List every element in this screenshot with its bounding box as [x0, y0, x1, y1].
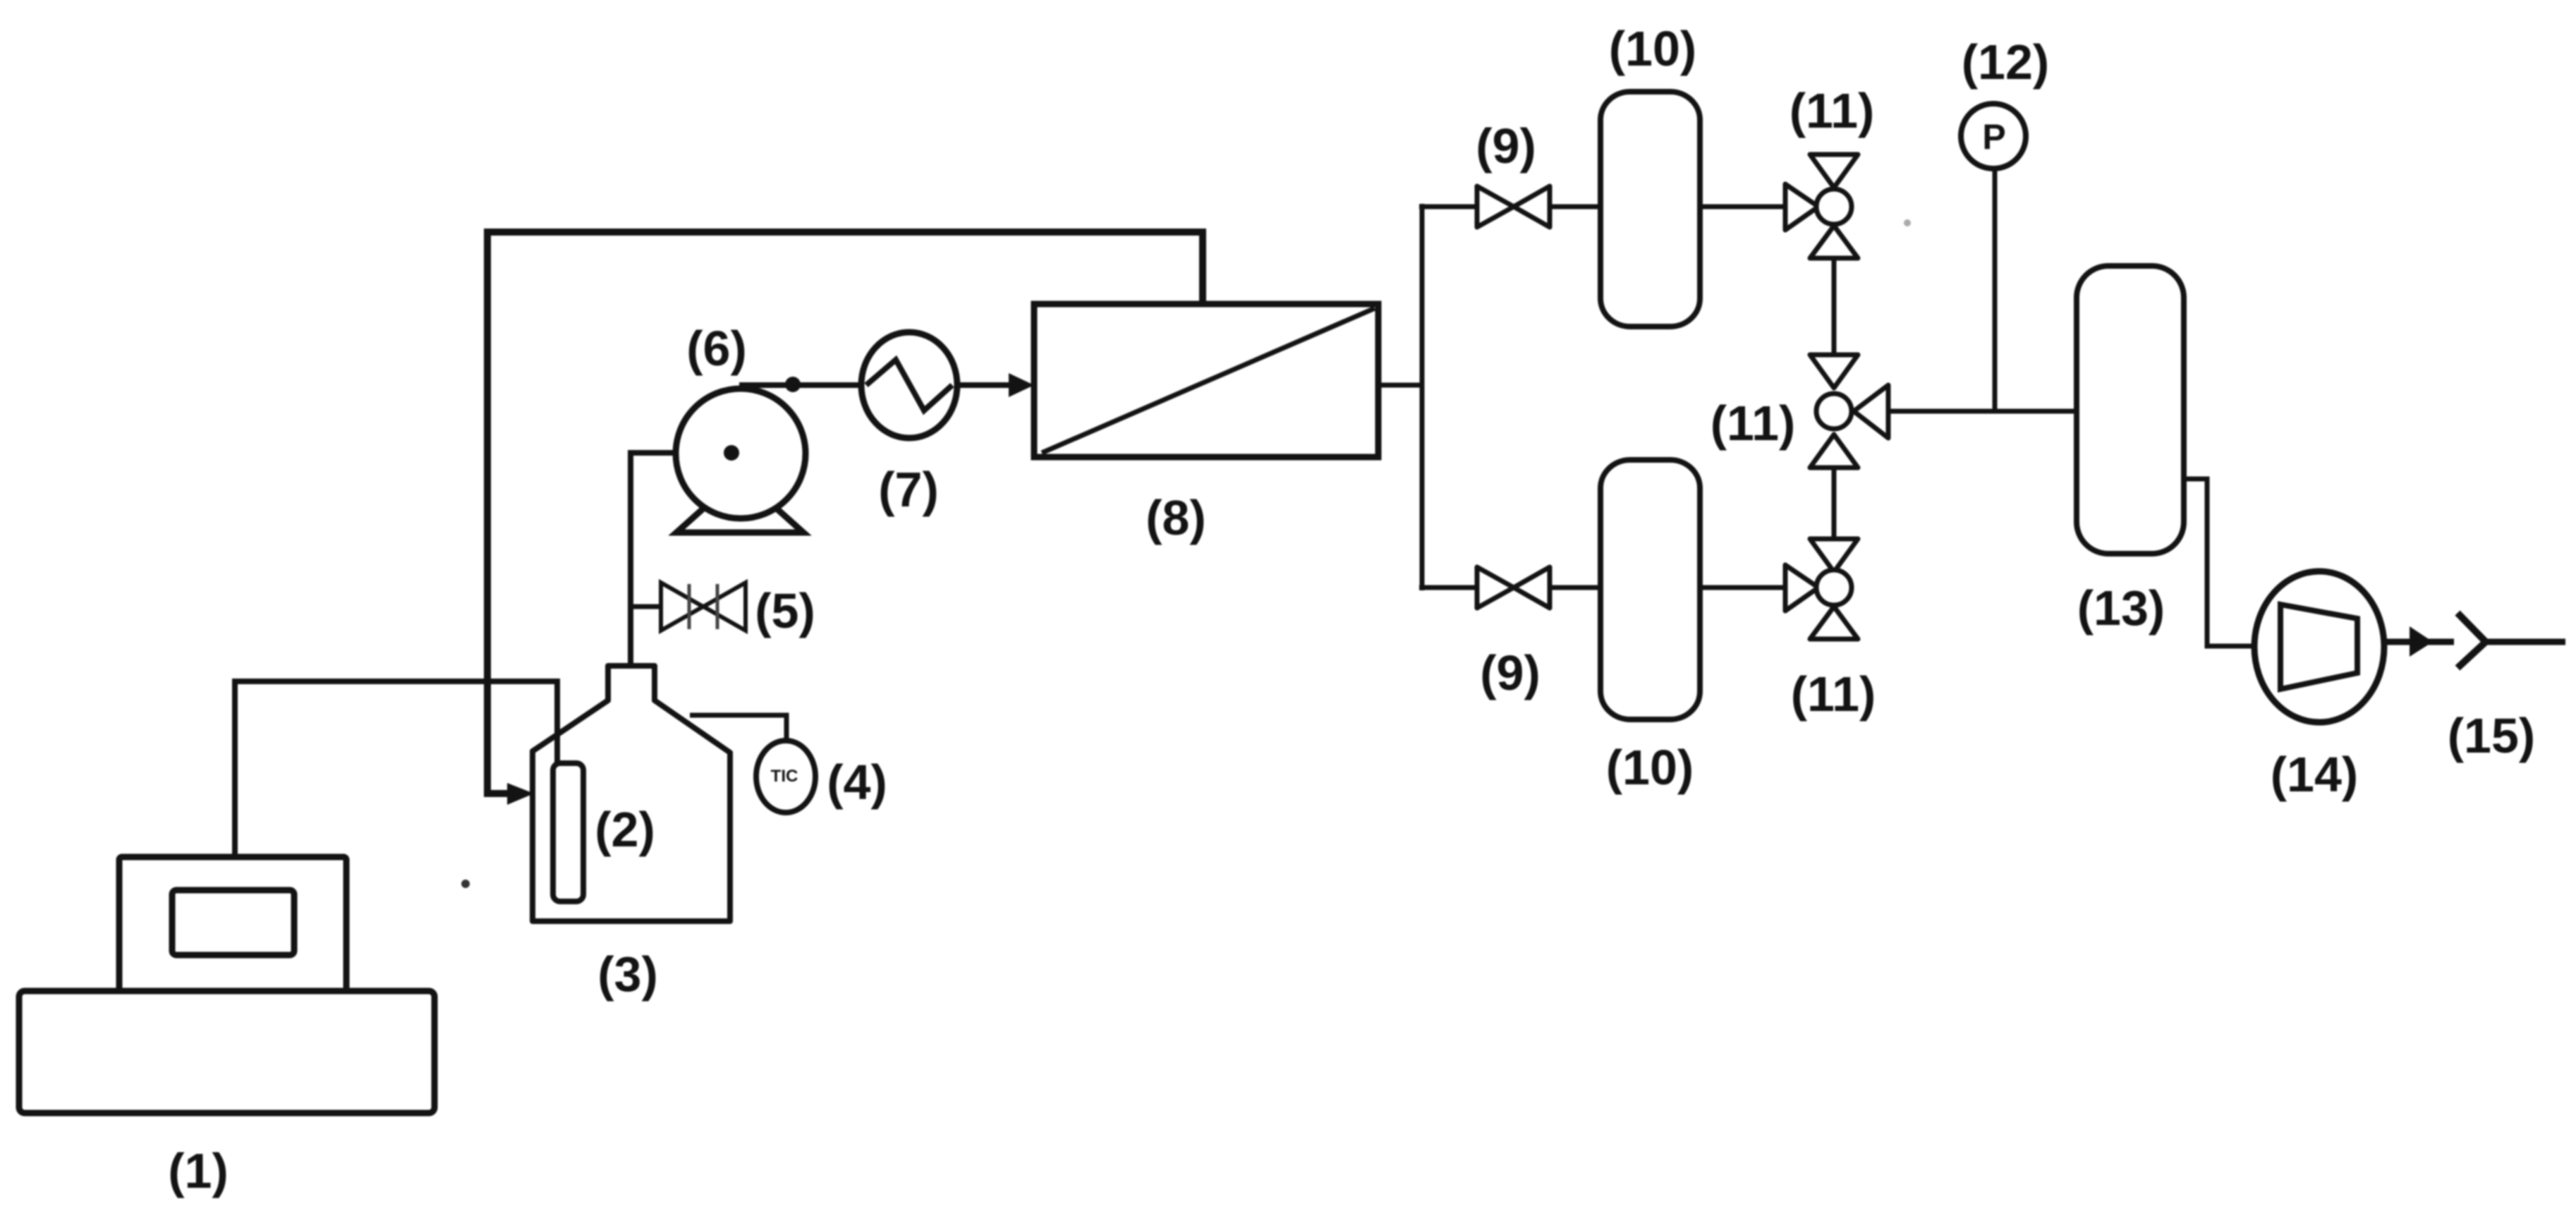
- wire valve (11) top to valve (11) middle: [1832, 258, 1837, 355]
- TIC line tank to (4): [690, 715, 786, 743]
- vessel (10) bottom: [1600, 460, 1700, 719]
- pump (6): [676, 389, 806, 518]
- svg-text:(6): (6): [686, 321, 747, 376]
- svg-text:P: P: [1982, 117, 2005, 157]
- wire stub to valve (5): [631, 604, 661, 609]
- valve (9) bottom: [1477, 567, 1550, 608]
- wire HX (7) to module (8): [956, 382, 1016, 388]
- svg-text:(10): (10): [1609, 21, 1696, 76]
- wire module (8) outlet: [1378, 383, 1422, 388]
- wire gauge (12) down: [1993, 169, 1998, 411]
- junction dot pump inlet: [724, 445, 739, 461]
- svg-text:(8): (8): [1146, 490, 1206, 545]
- svg-text:(4): (4): [827, 755, 887, 810]
- svg-text:(7): (7): [878, 462, 939, 517]
- pressure gauge (12): [1961, 104, 2026, 169]
- tank (3): [533, 666, 730, 921]
- valve (5): [661, 583, 746, 631]
- wire balance to level sensor (2): [235, 681, 557, 857]
- balance (1) base: [19, 991, 435, 1113]
- balance (1) body: [119, 857, 346, 991]
- vessel (13): [2077, 266, 2184, 554]
- arrowhead into module: [1009, 373, 1034, 397]
- wire bottom branch to valve (9) bottom: [1419, 585, 1477, 590]
- svg-text:(14): (14): [2271, 747, 2358, 802]
- wire pump (6) to HX (7): [739, 382, 862, 388]
- svg-text:(3): (3): [597, 947, 658, 1002]
- three-way valve (11) top: [1785, 154, 1858, 258]
- balance (1) display: [172, 890, 294, 955]
- svg-text:(2): (2): [595, 802, 655, 857]
- svg-text:(5): (5): [755, 583, 815, 638]
- svg-text:(9): (9): [1480, 645, 1541, 700]
- temperature controller (4): [756, 741, 815, 813]
- vessel (10) top: [1600, 92, 1700, 327]
- svg-text:(15): (15): [2448, 708, 2535, 763]
- wire vessel (13) to compressor (14): [2184, 479, 2255, 646]
- level sensor (2): [553, 763, 583, 901]
- svg-text:(11): (11): [1790, 83, 1875, 138]
- membrane module (8): [1034, 304, 1378, 457]
- wire valve (9) bottom to vessel (10) bottom: [1550, 585, 1600, 590]
- three-way valve (11) middle: [1810, 355, 1888, 468]
- heat exchanger (7): [861, 332, 957, 438]
- wire top branch to valve (9): [1419, 205, 1477, 209]
- svg-text:(9): (9): [1476, 118, 1536, 174]
- outlet stream (15): [2385, 639, 2454, 645]
- svg-text:(12): (12): [1962, 35, 2049, 90]
- wire valve (11) middle to vessel (13): [1888, 409, 2077, 414]
- wire tank neck to pump (6): [631, 453, 727, 668]
- wire valve (11) middle to valve (11) bottom: [1832, 468, 1837, 539]
- wire recirculation return (8) to tank (3): [487, 232, 1203, 794]
- stray dot near tank: [461, 880, 470, 888]
- svg-text:(1): (1): [168, 1143, 229, 1198]
- wire branch vertical: [1420, 204, 1425, 590]
- svg-text:(13): (13): [2077, 580, 2165, 636]
- three-way valve (11) bottom: [1785, 539, 1858, 639]
- wire vessel (10) bottom to valve (11) bottom: [1700, 585, 1785, 590]
- svg-text:(11): (11): [1791, 667, 1876, 722]
- compressor (14): [2254, 571, 2384, 722]
- svg-text:(11): (11): [1711, 396, 1796, 451]
- svg-text:(10): (10): [1606, 740, 1694, 795]
- junction dot: [785, 377, 801, 392]
- stray dot near valve (11) top: [1904, 219, 1911, 226]
- wire valve (9) to vessel (10) top: [1550, 205, 1600, 209]
- arrowhead into tank: [507, 783, 534, 805]
- svg-text:TIC: TIC: [771, 767, 798, 786]
- wire vessel (10) top to valve (11) top: [1700, 205, 1785, 209]
- valve (9) top: [1477, 186, 1550, 227]
